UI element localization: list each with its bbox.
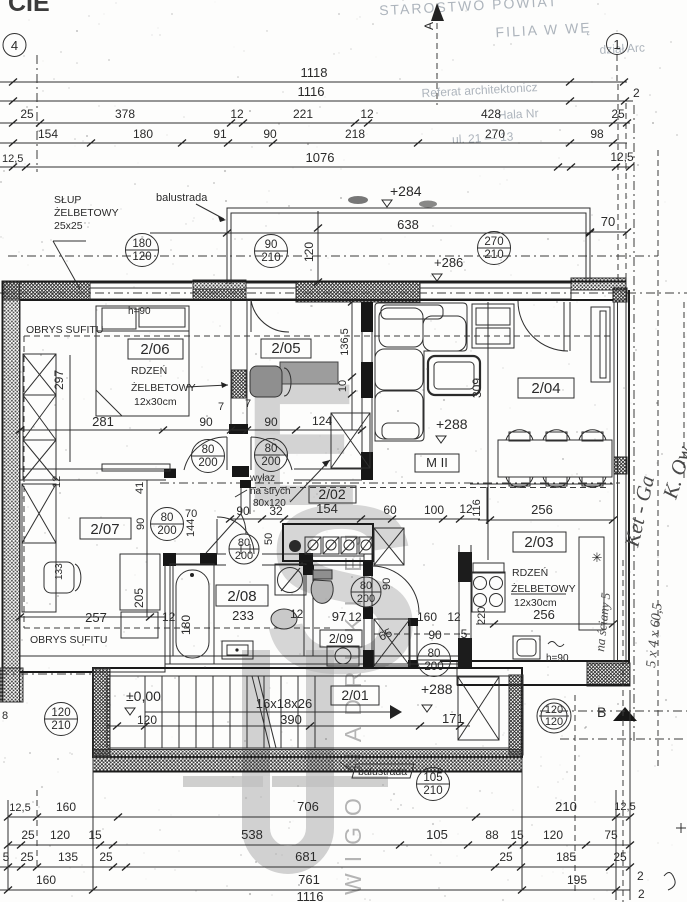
svg-text:105: 105 xyxy=(423,772,442,784)
WC top wall xyxy=(313,556,364,565)
svg-text:160: 160 xyxy=(36,873,56,887)
svg-text:88: 88 xyxy=(485,828,499,842)
svg-text:70: 70 xyxy=(185,508,197,520)
svg-text:2/04: 2/04 xyxy=(531,380,560,397)
svg-text:538: 538 xyxy=(241,827,263,842)
svg-text:25: 25 xyxy=(21,828,35,842)
terrace bottom dotted band xyxy=(93,750,522,772)
top dimension row 12,5/1076/12,5 xyxy=(0,150,634,171)
oval fixture bathroom xyxy=(271,609,297,629)
left outer wall hatched xyxy=(3,281,21,702)
room label 2/07 xyxy=(80,518,131,539)
svg-text:120: 120 xyxy=(545,716,563,728)
svg-text:218: 218 xyxy=(345,127,365,141)
svg-text:2/05: 2/05 xyxy=(271,340,300,357)
dims 205/90 vertical 2/07 xyxy=(132,480,147,617)
bed 2/06 xyxy=(96,306,189,416)
bathtub xyxy=(170,564,214,664)
svg-text:12: 12 xyxy=(230,107,244,121)
outer wall top: pier left corner xyxy=(2,281,90,300)
dim 309 vertical xyxy=(470,302,488,560)
chair 2/07 xyxy=(44,562,81,593)
svg-text:120: 120 xyxy=(543,828,563,842)
TV cabinet right wall xyxy=(591,307,610,382)
dim row 281/90/90/124 xyxy=(16,414,366,434)
window bubble 105/210 xyxy=(417,768,450,801)
door arc 2/05 xyxy=(251,437,292,470)
wide hatched pier over 2/05-2/04 xyxy=(296,281,420,302)
door bubble 80/200 bottom xyxy=(418,644,451,677)
svg-text:80: 80 xyxy=(265,443,278,455)
balcony top outline xyxy=(227,208,590,284)
svg-text:90: 90 xyxy=(263,127,277,141)
svg-text:12,5: 12,5 xyxy=(610,150,634,164)
svg-text:210: 210 xyxy=(555,799,577,814)
svg-text:706: 706 xyxy=(297,799,319,814)
guide verticals bottom xyxy=(8,690,630,900)
svg-text:12x30cm: 12x30cm xyxy=(134,396,177,408)
svg-text:2: 2 xyxy=(633,86,640,100)
SŁUP ŻELBETOWY note xyxy=(53,194,119,289)
pier between 2/06 and 2/05 windows xyxy=(193,280,246,300)
room label 2/03 xyxy=(513,532,566,552)
kitchen left wall V7 xyxy=(458,545,472,668)
svg-text:ŻELBETOWY: ŻELBETOWY xyxy=(54,206,119,219)
svg-text:41: 41 xyxy=(134,482,146,494)
svg-text:8: 8 xyxy=(2,710,8,722)
door bubble 80/200 left xyxy=(192,440,225,473)
side cabinet 2/04 xyxy=(472,304,514,348)
svg-text:185: 185 xyxy=(556,850,576,864)
room label 2/01 xyxy=(331,686,379,705)
svg-text:200: 200 xyxy=(198,457,217,469)
svg-text:12: 12 xyxy=(348,610,362,624)
svg-text:90: 90 xyxy=(236,504,250,518)
dim row 257/12 xyxy=(16,610,176,625)
desk 2/05 gray xyxy=(280,362,338,384)
svg-text:70: 70 xyxy=(601,214,615,229)
door 2/05 top xyxy=(251,300,289,332)
svg-text:180: 180 xyxy=(179,615,193,635)
svg-text:ŻELBETOWY: ŻELBETOWY xyxy=(131,381,196,394)
svg-text:80: 80 xyxy=(161,512,174,524)
bubble 120/120 double circle xyxy=(537,699,571,733)
svg-text:133: 133 xyxy=(54,563,65,580)
left axis dash bottom xyxy=(0,674,93,722)
svg-text:A: A xyxy=(422,22,436,30)
storage X-box passage xyxy=(374,619,410,666)
level +288 living xyxy=(436,416,468,443)
door bubble 80/200 hall-kitchen xyxy=(351,577,381,607)
kitchen counter with burners (hall side) xyxy=(283,524,373,561)
svg-text:256: 256 xyxy=(533,607,555,622)
balcony dim 120 vertical xyxy=(302,211,322,286)
svg-text:681: 681 xyxy=(295,849,317,864)
window bubble 270/210 xyxy=(478,232,511,265)
bottom dim row 5/25/135/25/681/25/185/25 xyxy=(0,849,634,871)
svg-text:210: 210 xyxy=(261,252,280,264)
svg-text:90: 90 xyxy=(265,239,278,251)
svg-text:120: 120 xyxy=(302,242,316,262)
watermark letter U xyxy=(256,650,320,860)
svg-text:2/03: 2/03 xyxy=(524,534,553,551)
note wylaz na strych xyxy=(235,460,330,509)
svg-text:80: 80 xyxy=(202,444,215,456)
stairs X-box right xyxy=(458,677,499,740)
axis line below bubble 4 xyxy=(36,55,38,172)
svg-text:+288: +288 xyxy=(436,416,468,432)
sofa corner 2/04 xyxy=(375,303,467,441)
toilet wc xyxy=(311,570,333,603)
stairs block outer xyxy=(93,668,522,757)
wall V6 wc/kitchen hall xyxy=(363,554,374,668)
svg-text:154: 154 xyxy=(316,501,338,516)
reference bubble 4 xyxy=(3,34,26,57)
wall V6b hall/kitchen passage xyxy=(408,618,418,668)
svg-text:120: 120 xyxy=(545,704,563,716)
svg-text:90: 90 xyxy=(264,415,278,429)
left wall bottom corner hatch xyxy=(0,668,23,702)
top-right black corner block xyxy=(613,288,627,302)
wall V5 bathroom/wc xyxy=(303,565,314,656)
svg-text:12: 12 xyxy=(51,476,63,488)
window W2 top (2/05) xyxy=(246,283,296,299)
svg-text:91: 91 xyxy=(213,127,227,141)
svg-text:CIE: CIE xyxy=(8,0,50,17)
door leaf 2/05 xyxy=(250,437,252,470)
cabinet 2/07 bottom right xyxy=(120,554,160,638)
svg-text:7: 7 xyxy=(218,401,224,413)
svg-text:116: 116 xyxy=(471,499,483,517)
bathroom left wall V4 xyxy=(165,565,173,656)
open-plan divider line xyxy=(470,483,613,485)
level +286 xyxy=(432,255,463,281)
svg-text:2: 2 xyxy=(638,887,645,901)
section marker B xyxy=(540,704,687,739)
svg-text:154: 154 xyxy=(38,127,58,141)
svg-text:12: 12 xyxy=(459,502,473,516)
bathroom door arc xyxy=(217,517,254,554)
svg-text:80x120: 80x120 xyxy=(253,498,286,509)
svg-text:wyłaz: wyłaz xyxy=(249,473,275,484)
kitchen sink unit xyxy=(513,636,569,664)
svg-text:378: 378 xyxy=(115,107,135,121)
svg-text:12,5: 12,5 xyxy=(614,801,635,813)
svg-text:RDZEŃ: RDZEŃ xyxy=(512,566,548,579)
svg-text:270: 270 xyxy=(485,127,505,141)
roof dashed line right xyxy=(657,150,659,768)
svg-text:98: 98 xyxy=(590,127,604,141)
svg-text:205: 205 xyxy=(132,588,146,608)
level 0,00 xyxy=(125,688,161,727)
svg-text:135: 135 xyxy=(58,850,78,864)
svg-text:5: 5 xyxy=(461,627,468,641)
svg-text:220: 220 xyxy=(476,607,488,625)
svg-text:761: 761 xyxy=(298,872,320,887)
axis dash vertical right bottom xyxy=(622,560,624,902)
svg-text:h=90: h=90 xyxy=(128,306,151,317)
svg-text:25: 25 xyxy=(20,107,34,121)
svg-text:4: 4 xyxy=(11,38,18,53)
stair treads xyxy=(145,676,315,748)
svg-text:B: B xyxy=(597,704,606,720)
wardrobe 2/07 xyxy=(22,484,56,612)
svg-text:RDZEŃ: RDZEŃ xyxy=(131,364,167,377)
svg-text:1116: 1116 xyxy=(298,84,325,99)
dims 97 12 xyxy=(332,609,362,624)
svg-text:7: 7 xyxy=(245,398,251,410)
washbasin bathroom xyxy=(275,564,306,595)
svg-text:5: 5 xyxy=(3,850,10,864)
axis dashed through balcony xyxy=(8,255,658,257)
top dimension row 25/378/12/221/12/428/25 xyxy=(0,107,631,127)
right wall black pier mid xyxy=(614,457,627,474)
dim 70 right xyxy=(586,214,631,236)
svg-text:200: 200 xyxy=(261,456,280,468)
svg-text:SŁUP: SŁUP xyxy=(54,194,81,206)
svg-text:200: 200 xyxy=(357,593,375,605)
living room door arc from balcony xyxy=(518,301,570,351)
room label 2/04 xyxy=(518,378,574,398)
balcony dim 638 xyxy=(150,217,594,237)
svg-text:200: 200 xyxy=(235,550,253,562)
svg-text:171: 171 xyxy=(442,711,464,726)
top dimension row 154/180/91/90/218/270/98 xyxy=(0,127,627,147)
svg-text:+284: +284 xyxy=(390,183,422,199)
svg-text:256: 256 xyxy=(531,502,553,517)
svg-text:80: 80 xyxy=(360,580,372,592)
room label 2/02 xyxy=(309,486,356,503)
svg-text:balustrada: balustrada xyxy=(156,192,208,204)
svg-text:428: 428 xyxy=(481,107,501,121)
note RDZEN ZELBETOWY 2/06 xyxy=(131,364,228,408)
bathroom bottom wall lines xyxy=(165,656,459,664)
svg-text:WIGO NADRUKI EJ: WIGO NADRUKI EJ xyxy=(340,523,366,895)
room label 2/08 xyxy=(216,585,268,606)
bottom-right corner hatch xyxy=(587,663,630,686)
svg-text:2/06: 2/06 xyxy=(140,341,169,358)
door arc 2/06 xyxy=(184,437,227,470)
svg-text:144: 144 xyxy=(185,519,197,537)
svg-text:50: 50 xyxy=(263,533,275,545)
svg-text:160: 160 xyxy=(56,800,76,814)
svg-text:270: 270 xyxy=(484,236,503,248)
svg-text:12,5: 12,5 xyxy=(9,802,30,814)
svg-text:±0,00: ±0,00 xyxy=(126,688,161,704)
svg-text:120: 120 xyxy=(51,707,70,719)
svg-text:160: 160 xyxy=(417,610,437,624)
svg-text:+288: +288 xyxy=(421,681,453,697)
balustrada label top xyxy=(156,192,226,222)
section marker A xyxy=(422,3,444,105)
svg-text:80: 80 xyxy=(238,537,250,549)
svg-text:97: 97 xyxy=(332,609,346,624)
scanner smudge bar xyxy=(183,776,263,787)
svg-text:80: 80 xyxy=(428,648,441,660)
axis line below bubble 1 xyxy=(616,55,618,84)
interior wall V1 between 2/06 and 2/05 xyxy=(229,300,248,434)
svg-text:195: 195 xyxy=(567,873,587,887)
svg-text:1: 1 xyxy=(613,37,620,52)
svg-text:180: 180 xyxy=(133,127,153,141)
svg-text:12: 12 xyxy=(162,610,176,624)
door arc wc-kitchen xyxy=(372,566,419,613)
svg-text:390: 390 xyxy=(280,712,302,727)
wall V3 right of 2/07 xyxy=(240,480,251,554)
svg-text:25x25: 25x25 xyxy=(54,220,83,232)
svg-text:105: 105 xyxy=(426,827,448,842)
stair walk line with arrow xyxy=(145,705,402,719)
svg-text:na strych: na strych xyxy=(250,486,291,497)
terrace right hatch column xyxy=(509,675,523,755)
svg-text:90: 90 xyxy=(381,578,393,590)
dim 256 kitchen bottom xyxy=(476,621,617,628)
svg-text:60: 60 xyxy=(383,503,397,517)
window bubble 180/120 xyxy=(126,234,159,267)
svg-text:2/01: 2/01 xyxy=(341,687,368,703)
svg-text:25: 25 xyxy=(20,850,34,864)
top dimension row 1118 xyxy=(0,65,628,86)
stamp STAROSTWO xyxy=(379,0,650,150)
svg-text:221: 221 xyxy=(293,107,313,121)
svg-text:200: 200 xyxy=(157,525,176,537)
svg-text:M II: M II xyxy=(426,455,448,470)
level +288 stairs xyxy=(421,681,464,726)
door leaf 2/06 xyxy=(226,437,228,470)
room label 2/05 xyxy=(261,339,311,358)
svg-text:281: 281 xyxy=(92,414,114,429)
bottom dim row 160/761/195/2 xyxy=(0,869,645,901)
svg-text:h=90: h=90 xyxy=(546,653,569,664)
attic hatch X-box xyxy=(331,413,370,468)
door bubble 80/200 (2/07) xyxy=(151,508,184,541)
svg-text:90: 90 xyxy=(428,628,442,642)
note RDZEN ZELBETOWY kitchen xyxy=(511,566,576,622)
balcony window-door W3 (2/04) xyxy=(420,283,571,299)
bottom wall kitchen segment xyxy=(440,661,630,685)
window bubble 90/210 xyxy=(255,235,288,268)
svg-text:OBRYS SUFITU: OBRYS SUFITU xyxy=(30,634,107,646)
axis B vertical xyxy=(574,695,576,893)
svg-text:+286: +286 xyxy=(434,255,463,270)
right outer wall hatched xyxy=(614,290,629,663)
svg-text:120: 120 xyxy=(50,828,70,842)
dim 297 vertical xyxy=(52,355,70,462)
bathroom wall H3 xyxy=(163,553,313,566)
dim 233/12 xyxy=(232,607,304,623)
svg-text:309: 309 xyxy=(470,378,484,398)
svg-text:90: 90 xyxy=(199,415,213,429)
handwriting right margin xyxy=(592,443,687,668)
bottom wall left segment (under 2/07) xyxy=(20,656,165,672)
svg-text:2/02: 2/02 xyxy=(318,486,345,502)
wall axis dash-dot horizontal xyxy=(0,292,687,294)
svg-text:2/08: 2/08 xyxy=(227,588,256,605)
svg-text:✳: ✳ xyxy=(592,550,603,565)
svg-text:136,5: 136,5 xyxy=(339,328,351,356)
balustrada label bottom xyxy=(340,762,414,778)
hall dim row 90/32/154/60/100/12 xyxy=(226,501,480,523)
svg-text:12: 12 xyxy=(360,107,374,121)
svg-text:balustrada: balustrada xyxy=(358,766,407,778)
svg-text:233: 233 xyxy=(232,608,254,623)
svg-text:ŻELBETOWY: ŻELBETOWY xyxy=(511,582,576,595)
svg-text:12,5: 12,5 xyxy=(2,153,23,165)
svg-text:2/07: 2/07 xyxy=(90,521,119,538)
bottom dim row 12,5/160/706/210/12,5 xyxy=(4,799,636,821)
bottom dim row 25/120/15/538/105/88/15/120/75 xyxy=(4,827,634,849)
svg-text:180: 180 xyxy=(132,238,151,250)
svg-text:1118: 1118 xyxy=(301,65,328,80)
coffee table 2/04 xyxy=(428,356,480,395)
fridge X-box xyxy=(374,528,404,565)
dim 136,5 vertical xyxy=(337,299,356,431)
door bubble 80/200 right xyxy=(255,439,288,472)
svg-text:25: 25 xyxy=(613,850,627,864)
svg-text:1116: 1116 xyxy=(297,889,324,902)
top dimension row 1116 xyxy=(0,84,640,105)
dim 256 top kitchen xyxy=(471,487,617,524)
svg-text:25: 25 xyxy=(99,850,113,864)
kitchen right counter xyxy=(579,537,604,630)
svg-text:OBRYS SUFITU: OBRYS SUFITU xyxy=(26,324,103,336)
dims 160 12 90 5 xyxy=(376,610,467,644)
svg-text:210: 210 xyxy=(423,785,442,797)
radiator 2/06 xyxy=(102,464,170,471)
shelf bathroom xyxy=(222,641,253,659)
door leaf 2/07 xyxy=(206,514,246,553)
room label 2/09 xyxy=(320,630,362,647)
svg-text:10: 10 xyxy=(337,380,349,392)
svg-text:90: 90 xyxy=(135,518,147,530)
stair break line xyxy=(252,676,276,748)
svg-text:15: 15 xyxy=(88,828,102,842)
svg-text:124: 124 xyxy=(312,414,332,428)
hallway dashed axis 2/02 xyxy=(160,482,620,484)
reference bubble 1 xyxy=(607,34,628,55)
right edge vertical line xyxy=(683,302,685,480)
room label 2/06 xyxy=(128,339,183,359)
svg-text:Hala Nr: Hala Nr xyxy=(497,106,538,122)
handwriting marks bottom right xyxy=(664,823,686,890)
door bubble 80/200 bathroom xyxy=(229,534,259,564)
interior wall H1 under 2/06 and 2/05 xyxy=(20,466,362,480)
label M II xyxy=(415,454,459,472)
dining table xyxy=(498,430,612,488)
wardrobe column left xyxy=(23,354,56,480)
kitchen appliances column xyxy=(472,563,505,625)
top-right checkered pier xyxy=(571,278,626,300)
svg-text:638: 638 xyxy=(397,217,419,232)
window bubble 120/210 left xyxy=(45,703,78,736)
stairs dim line 120/390/171 xyxy=(107,723,470,730)
window W1 top (2/06) xyxy=(90,283,192,299)
svg-text:297: 297 xyxy=(52,370,66,390)
top wall inner edge line xyxy=(20,299,613,301)
svg-text:1076: 1076 xyxy=(306,150,335,165)
obrys sufitu dashed lines xyxy=(24,336,610,634)
svg-text:2/09: 2/09 xyxy=(329,632,353,646)
svg-text:12: 12 xyxy=(447,610,461,624)
svg-text:210: 210 xyxy=(51,720,70,732)
interior wall V2 between 2/05 and 2/04 xyxy=(361,302,373,480)
level +284 xyxy=(348,183,437,208)
office chair 2/05 xyxy=(250,366,291,397)
svg-text:2: 2 xyxy=(637,869,644,883)
svg-text:120: 120 xyxy=(132,251,151,263)
svg-text:257: 257 xyxy=(85,610,107,625)
svg-text:12: 12 xyxy=(290,607,304,621)
